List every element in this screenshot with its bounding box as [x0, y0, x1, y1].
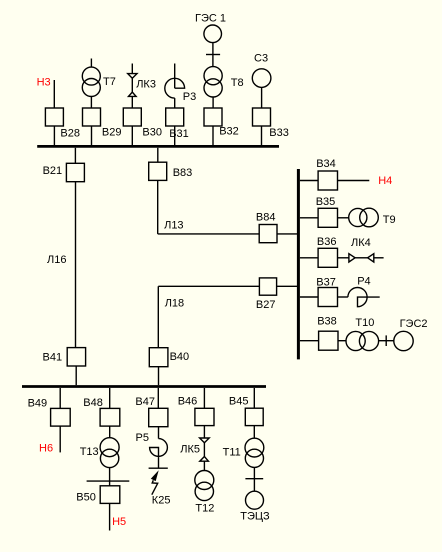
- svg-text:Н4: Н4: [378, 175, 392, 187]
- wire T11-TEC3: [253, 467, 255, 491]
- svg-text:В47: В47: [135, 396, 155, 408]
- generator GES1: [204, 25, 222, 43]
- tap line: [87, 480, 130, 482]
- svg-text:В36: В36: [317, 236, 337, 248]
- wire B84-rightbus: [277, 233, 297, 235]
- wire P3-B31: [174, 98, 176, 108]
- wire bus-B83: [157, 148, 159, 162]
- line L18 vertical: [157, 286, 159, 347]
- breaker B41: [67, 348, 85, 366]
- wire B45-T11: [253, 426, 255, 439]
- svg-text:В45: В45: [229, 396, 249, 408]
- svg-text:В27: В27: [256, 299, 276, 311]
- breaker B30: [123, 108, 141, 126]
- svg-text:Т9: Т9: [383, 214, 396, 226]
- transformer T13: [100, 438, 119, 457]
- breaker B46: [195, 408, 214, 425]
- wire B29-bus: [91, 126, 93, 146]
- arrester LK3: [131, 64, 133, 74]
- bottom bus (busbar): [22, 385, 266, 388]
- svg-text:Л18: Л18: [165, 297, 184, 309]
- svg-text:В35: В35: [316, 196, 336, 208]
- wire B27-rightbus: [277, 285, 297, 287]
- svg-text:В48: В48: [83, 397, 103, 409]
- breaker B84: [259, 225, 277, 243]
- wire T10-GES2: [379, 340, 394, 342]
- wire T13-B50: [109, 468, 111, 486]
- svg-text:В37: В37: [316, 276, 336, 288]
- transformer T8: [204, 67, 222, 85]
- breaker B49: [51, 408, 71, 426]
- breaker B33: [253, 108, 271, 126]
- svg-text:Т12: Т12: [195, 503, 214, 515]
- wire B38-T10: [338, 340, 346, 342]
- wire rightbus-B34: [300, 180, 318, 182]
- reactor P4: [348, 288, 380, 307]
- short-circuit K25: [151, 470, 159, 481]
- breaker B37: [318, 288, 337, 307]
- breaker B21: [66, 163, 84, 181]
- svg-text:В34: В34: [316, 158, 336, 170]
- tick above K25: [149, 467, 168, 469]
- wire bottombus-B48: [109, 388, 111, 408]
- tap tick: [206, 54, 220, 56]
- svg-text:Т10: Т10: [355, 317, 374, 329]
- svg-text:В29: В29: [102, 127, 122, 139]
- svg-text:Т8: Т8: [231, 77, 244, 89]
- svg-text:ЛК4: ЛК4: [351, 237, 371, 249]
- transformer T11: [245, 438, 264, 457]
- wire rightbus-B37: [300, 296, 318, 298]
- wire bottombus-B47: [157, 388, 159, 408]
- tap tick: [385, 335, 387, 346]
- svg-text:ГЭС2: ГЭС2: [400, 318, 428, 330]
- svg-text:Р3: Р3: [183, 91, 196, 103]
- load C3: [252, 69, 271, 88]
- transformer T9: [349, 208, 367, 226]
- svg-text:Т13: Т13: [80, 446, 99, 458]
- wire C3-B33: [261, 87, 263, 108]
- wire B35-T9: [338, 217, 349, 219]
- wire B37-P4: [338, 296, 348, 298]
- svg-text:В38: В38: [317, 316, 337, 328]
- svg-text:Л16: Л16: [47, 254, 66, 266]
- wire B41-bottombus: [75, 366, 77, 385]
- wire B48-T13: [109, 426, 111, 438]
- wire bus-B21: [74, 148, 76, 164]
- wire B28-bus: [53, 126, 55, 146]
- svg-text:ГЭС 1: ГЭС 1: [195, 13, 226, 25]
- wire bottombus-B49: [59, 388, 61, 408]
- breaker B29: [83, 108, 101, 126]
- wire T8-B32: [212, 97, 214, 108]
- breaker B35: [318, 208, 337, 227]
- svg-text:С3: С3: [254, 53, 268, 65]
- wire B30-bus: [131, 126, 133, 146]
- svg-text:В84: В84: [256, 212, 276, 224]
- svg-text:Р4: Р4: [357, 276, 370, 288]
- svg-text:ЛК5: ЛК5: [180, 443, 200, 455]
- breaker B38: [319, 331, 338, 350]
- wire LK5-T12: [203, 461, 205, 470]
- svg-text:В30: В30: [142, 127, 162, 139]
- svg-text:В50: В50: [76, 492, 96, 504]
- svg-text:В21: В21: [43, 165, 63, 177]
- line L13 vertical: [157, 180, 159, 234]
- svg-text:Т7: Т7: [103, 76, 116, 88]
- svg-text:В32: В32: [219, 126, 239, 138]
- wire B46-LK5: [203, 426, 205, 438]
- generator TEC3: [246, 491, 264, 509]
- svg-text:Р5: Р5: [136, 432, 149, 444]
- wire B47-P5: [158, 427, 160, 439]
- svg-text:В40: В40: [170, 351, 190, 363]
- generator GES2: [394, 331, 413, 350]
- tap tick: [245, 478, 263, 480]
- transformer T7: [90, 59, 92, 68]
- wire bottombus-B45: [253, 388, 255, 408]
- svg-text:В83: В83: [173, 167, 193, 179]
- wire B31-bus: [174, 126, 176, 146]
- arrester LK4: [349, 254, 355, 262]
- line L18 horizontal: [158, 285, 259, 287]
- transformer T12: [195, 471, 214, 490]
- svg-text:Л13: Л13: [164, 219, 183, 231]
- top bus (110kV busbar): [37, 145, 279, 148]
- svg-text:ТЭЦЗ: ТЭЦЗ: [240, 511, 270, 523]
- transformer T10: [346, 331, 365, 350]
- wire rightbus-B38: [300, 340, 319, 342]
- wire B32-bus: [212, 126, 214, 146]
- reactor P3: [174, 64, 176, 89]
- wire bottombus-B46: [203, 388, 205, 408]
- svg-text:В41: В41: [43, 351, 63, 363]
- breaker B32: [204, 108, 222, 126]
- breaker B27: [259, 278, 276, 295]
- breaker B28: [45, 108, 63, 126]
- svg-text:Н3: Н3: [37, 77, 51, 89]
- reactor P5: [150, 439, 168, 469]
- line L13 horizontal: [158, 233, 260, 235]
- breaker B45: [245, 408, 263, 425]
- arrester LK5: [200, 438, 210, 443]
- breaker B40: [149, 348, 168, 367]
- breaker B48: [100, 408, 120, 426]
- svg-text:В49: В49: [28, 397, 48, 409]
- line L16: [75, 182, 77, 348]
- svg-text:Н6: Н6: [39, 443, 53, 455]
- node H5 wire: [109, 503, 111, 530]
- breaker B34: [318, 171, 337, 190]
- wire GES1-T8: [212, 43, 214, 67]
- wire T7-B29: [90, 97, 92, 109]
- breaker B31: [166, 108, 184, 126]
- wire B36-LK4: [338, 257, 349, 259]
- wire LK3-B30: [131, 96, 133, 108]
- svg-text:К25: К25: [152, 495, 171, 507]
- svg-text:В28: В28: [60, 128, 80, 140]
- wire B33-bus: [261, 126, 263, 146]
- svg-text:В31: В31: [169, 128, 189, 140]
- breaker B36: [318, 248, 337, 267]
- breaker B47: [149, 408, 168, 426]
- breaker B83: [149, 162, 167, 180]
- svg-text:Н5: Н5: [112, 516, 126, 528]
- right bus (vertical busbar): [297, 169, 300, 359]
- wire B34-H4: [338, 180, 370, 182]
- breaker B50: [100, 486, 120, 504]
- wire rightbus-B35: [300, 217, 318, 219]
- svg-text:Т11: Т11: [223, 446, 241, 458]
- wire B40-bottombus: [158, 367, 160, 386]
- svg-text:ЛК3: ЛК3: [136, 78, 156, 90]
- node H3: [53, 80, 55, 108]
- wire rightbus-B36: [300, 257, 318, 259]
- svg-text:В46: В46: [178, 396, 198, 408]
- svg-text:В33: В33: [269, 127, 289, 139]
- node H6 wire: [59, 426, 61, 452]
